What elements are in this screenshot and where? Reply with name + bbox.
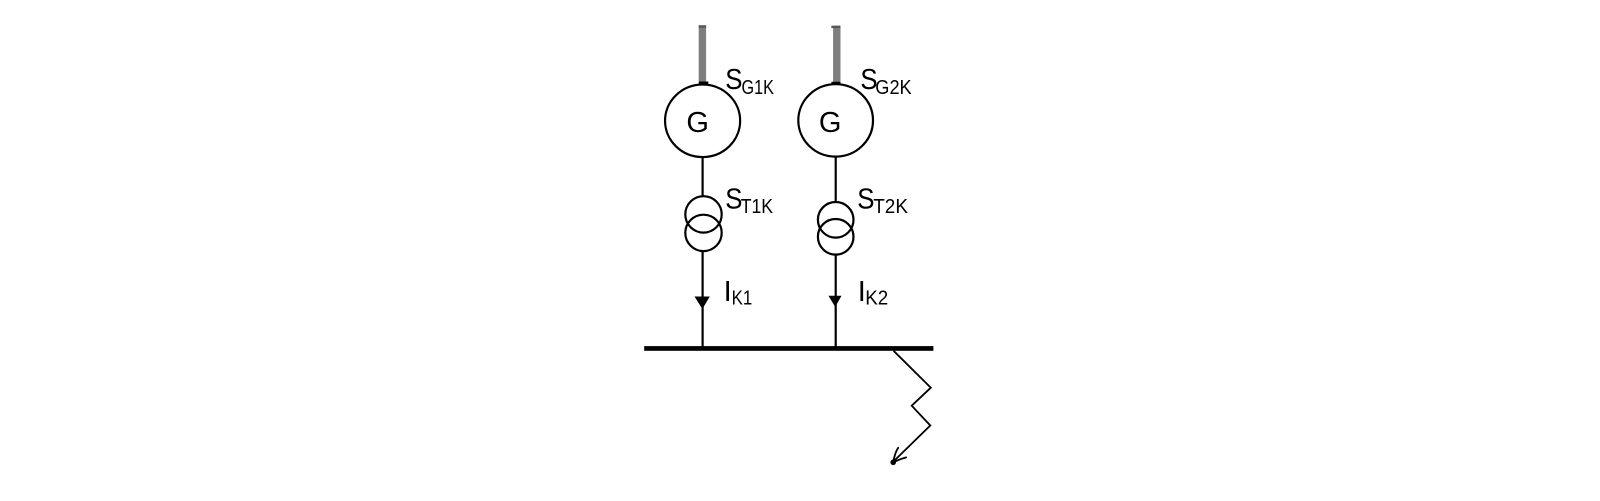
busbar (thick horizontal bus) [644,346,933,351]
svg-text:G: G [819,107,842,139]
current direction arrowhead IK1 [695,297,710,310]
wire: generator G1 to transformer T1 [701,157,703,197]
svg-text:T1K: T1K [741,196,774,218]
svg-text:K1: K1 [732,288,753,310]
label S_T1K [725,184,773,218]
fault arrowhead [890,448,906,465]
transformer T1 (two overlapping circles) [685,196,721,251]
svg-text:T2K: T2K [873,196,908,218]
wire: generator G2 to transformer T2 [835,157,837,202]
label I_K1 [724,276,753,310]
svg-text:K2: K2 [865,288,888,310]
label S_T2K [857,184,908,218]
feeder stub (grid connection) above generator G2 [831,26,840,85]
svg-text:S: S [857,184,874,216]
generator G1 circle [665,85,740,158]
wire: transformer T2 to busbar [835,255,837,347]
svg-text:G: G [686,107,709,139]
svg-text:I: I [724,276,732,308]
current direction arrowhead IK2 [829,296,842,307]
svg-text:G1K: G1K [742,77,775,99]
fault zigzag (short-circuit flash) [894,351,931,461]
svg-text:S: S [725,64,742,96]
svg-text:G2K: G2K [875,77,912,99]
generator G2 circle [798,84,873,156]
feeder stub (grid connection) above generator G1 [699,25,709,84]
label S_G2K [860,64,912,99]
label S_G1K [725,64,774,99]
label I_K2 [858,276,888,310]
transformer T2 (two overlapping circles) [818,202,854,255]
wire: transformer T1 to busbar [701,251,703,347]
